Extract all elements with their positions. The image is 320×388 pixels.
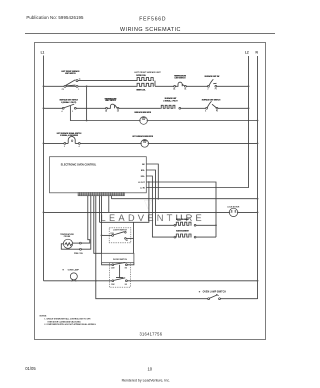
svg-text:10: 10 [147, 366, 152, 371]
svg-text:3: 3 [72, 111, 73, 113]
svg-text:2. COMPONENTS WITH ✳ DO NOT: 2. COMPONENTS WITH ✳ DO NOT APPEAR ON AL… [44, 323, 96, 326]
svg-text:OVEN DOOR CLOSED AND UNLOCKED.: OVEN DOOR CLOSED AND UNLOCKED. [47, 320, 81, 323]
svg-text:316417756: 316417756 [140, 332, 163, 337]
svg-text:PROBE: PROBE [64, 236, 71, 238]
svg-text:OUTER COIL: OUTER COIL [136, 75, 146, 77]
svg-text:P2: P2 [62, 89, 64, 91]
svg-text:LIGHT SWITCH: LIGHT SWITCH [113, 229, 127, 231]
svg-text:L2 IN: L2 IN [140, 187, 145, 189]
svg-text:P3: P3 [216, 111, 218, 113]
svg-text:UNIT SWITCH: UNIT SWITCH [65, 73, 76, 75]
svg-text:OVEN LAMP: OVEN LAMP [68, 269, 80, 272]
svg-text:WIRING SCHEMATIC: WIRING SCHEMATIC [120, 27, 181, 33]
svg-text:✳: ✳ [62, 269, 64, 272]
svg-text:Rendered by LeadVenture, Inc.: Rendered by LeadVenture, Inc. [122, 379, 170, 383]
svg-text:2: 2 [64, 146, 65, 148]
svg-text:1a: 1a [79, 79, 81, 81]
svg-text:1. CIRCUIT SHOWN WITH ALL CO: 1. CIRCUIT SHOWN WITH ALL CONTROLS SET T… [44, 318, 91, 321]
svg-text:NOTES:: NOTES: [40, 315, 48, 317]
svg-text:LOCK MOTOR: LOCK MOTOR [227, 206, 240, 208]
svg-text:LEFT FRONT SURFACE UNIT: LEFT FRONT SURFACE UNIT [134, 71, 161, 74]
svg-text:LIMIT SWITCH: LIMIT SWITCH [175, 77, 187, 79]
svg-text:1: 1 [78, 89, 79, 91]
svg-text:L2 OUT: L2 OUT [138, 182, 146, 184]
svg-text:LIMIT SWITCH: LIMIT SWITCH [105, 100, 117, 102]
svg-text:DOOR SWITCH: DOOR SWITCH [113, 259, 128, 261]
svg-text:L2: L2 [245, 50, 249, 54]
svg-text:L1: L1 [41, 50, 45, 54]
svg-text:FEF566D: FEF566D [139, 16, 166, 22]
svg-text:PRB CON: PRB CON [74, 253, 83, 255]
svg-text:01/05: 01/05 [25, 366, 36, 371]
svg-text:OVEN LAMP SWITCH: OVEN LAMP SWITCH [203, 291, 227, 294]
svg-text:Publication No: 5995426195: Publication No: 5995426195 [26, 15, 84, 20]
svg-text:INNER COIL: INNER COIL [136, 89, 145, 91]
svg-text:P1: P1 [215, 89, 217, 91]
svg-text:2: 2 [208, 89, 209, 91]
svg-text:✳: ✳ [199, 291, 201, 294]
svg-text:BROIL ELEMENT: BROIL ELEMENT [176, 219, 189, 221]
svg-text:ELECTRONIC OVEN CONTROL: ELECTRONIC OVEN CONTROL [61, 163, 97, 166]
